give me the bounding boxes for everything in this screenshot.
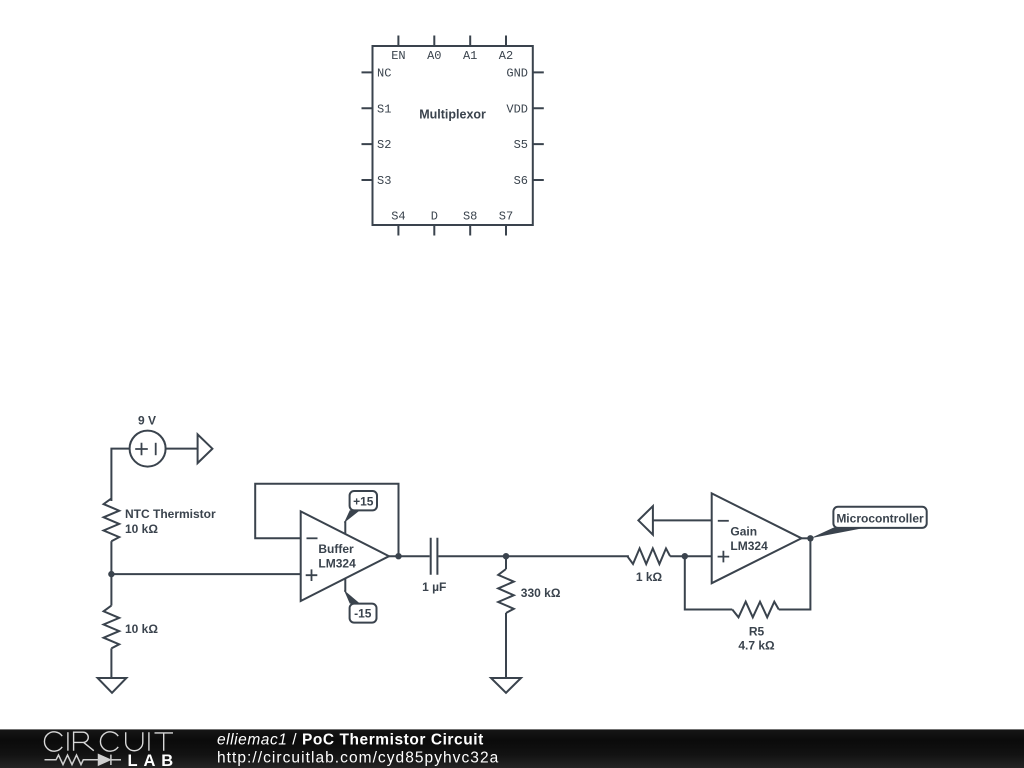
op-amp U3 Gain triangle <box>712 493 802 583</box>
ground symbol middle <box>491 678 521 693</box>
wire buffer output to node B <box>389 555 430 557</box>
footer bar <box>0 729 1024 768</box>
junction node A dot <box>108 571 114 577</box>
voltage source plus sign <box>135 443 148 455</box>
junction node E dot <box>807 535 813 541</box>
multiplexer pin label GND <box>506 66 528 80</box>
svg-text:R5: R5 <box>749 625 765 639</box>
wire node A down to R2 <box>110 574 112 606</box>
svg-text:VDD: VDD <box>506 102 528 116</box>
svg-text:-15: -15 <box>354 606 372 620</box>
footer title <box>217 731 484 748</box>
op-amp U3 minus symbol <box>718 520 729 522</box>
label R4 value <box>636 570 663 584</box>
svg-text:1 µF: 1 µF <box>422 580 446 594</box>
logo CIRCUIT letters <box>44 732 173 751</box>
multiplexer right pins GND VDD S5 S6 <box>533 72 544 180</box>
wire R4 to node D <box>670 555 712 557</box>
svg-text:Multiplexor: Multiplexor <box>419 108 486 122</box>
svg-text:D: D <box>431 210 438 224</box>
multiplexer pin label D <box>431 210 438 224</box>
junction node D dot <box>682 553 688 559</box>
op-amp U1 plus symbol <box>306 569 318 581</box>
multiplexer pin label VDD <box>506 102 528 116</box>
multiplexer pin label S1 <box>377 102 391 116</box>
svg-text:S3: S3 <box>377 174 391 188</box>
ground symbol left <box>98 678 127 693</box>
svg-text:GND: GND <box>506 66 528 80</box>
+15 supply flag box <box>350 491 377 510</box>
wire R3 to ground <box>505 613 507 678</box>
junction node B dot <box>395 553 401 559</box>
wire thermistor to node A <box>110 541 112 574</box>
multiplexer pin label A1 <box>463 49 477 63</box>
multiplexer bottom pins S4 D S8 S7 <box>398 225 506 236</box>
resistor R1 NTC thermistor zigzag <box>104 498 120 541</box>
label R5 value <box>738 638 775 652</box>
-15 supply flag box <box>350 604 377 623</box>
wire capacitor to node C <box>438 555 506 557</box>
voltage source minus bar <box>155 443 157 455</box>
wire source right to flag <box>166 448 198 450</box>
wire node A to buffer input <box>111 573 300 575</box>
multiplexer pin label S6 <box>514 174 528 188</box>
feedback wire buffer output to minus input <box>255 484 398 556</box>
logo LAB text <box>128 752 180 768</box>
multiplexer pin label S8 <box>463 210 477 224</box>
svg-text:10 kΩ: 10 kΩ <box>125 522 158 536</box>
multiplexer pin label A0 <box>427 49 441 63</box>
svg-text:4.7 kΩ: 4.7 kΩ <box>738 638 775 652</box>
label R3 value <box>521 586 561 600</box>
label C1 value <box>422 580 446 594</box>
label Buffer LM324 <box>318 542 356 571</box>
svg-text:S7: S7 <box>499 210 513 224</box>
svg-text:S6: S6 <box>514 174 528 188</box>
label 9V <box>138 413 156 427</box>
multiplexer pin label S4 <box>391 210 405 224</box>
flag tail -15 <box>344 590 360 604</box>
multiplexer left pins NC S1 S2 S3 <box>362 72 373 180</box>
multiplexer pin label S7 <box>499 210 513 224</box>
flag tail +15 <box>344 510 360 523</box>
multiplexer name label <box>419 108 486 122</box>
multiplexer pin label S5 <box>514 138 528 152</box>
resistor R2 10k zigzag <box>104 606 120 649</box>
svg-text:NC: NC <box>377 66 391 80</box>
Microcontroller flag box <box>833 507 926 528</box>
svg-text:A0: A0 <box>427 49 441 63</box>
label NTC Thermistor value <box>125 507 216 536</box>
svg-text:LAB: LAB <box>128 752 180 768</box>
multiplexer pin label A2 <box>499 49 513 63</box>
svg-text:Gain: Gain <box>730 524 757 538</box>
svg-text:A1: A1 <box>463 49 477 63</box>
buffer negative supply pin <box>344 578 346 592</box>
op-amp U1 minus symbol <box>307 537 318 539</box>
label R2 value <box>125 622 158 636</box>
svg-text:Buffer: Buffer <box>318 542 354 556</box>
wire node C down to R3 <box>505 556 507 569</box>
resistor R5 zigzag <box>732 602 779 618</box>
svg-text:A2: A2 <box>499 49 513 63</box>
svg-text:S4: S4 <box>391 210 405 224</box>
svg-text:1 kΩ: 1 kΩ <box>636 570 663 584</box>
wire gain output to node E <box>802 537 811 539</box>
multiplexer pin label S3 <box>377 174 391 188</box>
logo resistor and diode <box>45 755 122 765</box>
svg-text:9 V: 9 V <box>138 413 156 427</box>
svg-text:S8: S8 <box>463 210 477 224</box>
svg-text:10 kΩ: 10 kΩ <box>125 622 158 636</box>
wire source left to thermistor <box>111 449 129 501</box>
svg-text:S2: S2 <box>377 138 391 152</box>
junction node C dot <box>503 553 509 559</box>
label R5 name <box>749 625 765 639</box>
wire R5 to gain output node <box>779 538 811 609</box>
svg-text:Microcontroller: Microcontroller <box>836 512 924 526</box>
capacitor C1 plates <box>431 538 438 575</box>
svg-text:S5: S5 <box>514 138 528 152</box>
wire node C to R4 <box>506 555 629 557</box>
op-amp U3 plus symbol <box>718 551 730 563</box>
net flag at gain minus input <box>638 506 653 535</box>
svg-text:S1: S1 <box>377 102 391 116</box>
wire flag to gain minus input <box>653 519 712 521</box>
multiplexer U2 body <box>373 46 533 225</box>
multiplexer top pins EN A0 A1 A2 <box>398 36 506 47</box>
resistor R4 1k zigzag <box>627 548 670 564</box>
label Gain LM324 <box>730 524 768 552</box>
voltage source V1 9V circle <box>130 431 166 467</box>
buffer positive supply pin <box>344 521 346 534</box>
label +15 <box>353 494 374 508</box>
resistor R3 330k zigzag <box>498 569 514 613</box>
multiplexer pin label S2 <box>377 138 391 152</box>
footer url <box>217 749 499 766</box>
wire R2 to ground <box>110 648 112 678</box>
svg-text:NTC Thermistor: NTC Thermistor <box>125 507 216 521</box>
label Microcontroller <box>836 512 924 526</box>
svg-text:+15: +15 <box>353 494 374 508</box>
multiplexer pin label EN <box>391 49 405 63</box>
wire node D down and to R5 <box>685 556 733 609</box>
svg-text:LM324: LM324 <box>730 539 768 553</box>
svg-text:EN: EN <box>391 49 405 63</box>
svg-text:http://circuitlab.com/cyd85pyh: http://circuitlab.com/cyd85pyhvc32a <box>217 749 499 766</box>
svg-text:LM324: LM324 <box>318 557 356 571</box>
flag tail Microcontroller <box>810 528 866 539</box>
svg-text:330 kΩ: 330 kΩ <box>521 586 561 600</box>
op-amp U1 Buffer triangle <box>301 511 389 601</box>
label -15 <box>354 606 372 620</box>
net flag at source output <box>198 434 213 463</box>
multiplexer pin label NC <box>377 66 391 80</box>
svg-text:elliemac1 / PoC Thermistor Cir: elliemac1 / PoC Thermistor Circuit <box>217 731 484 748</box>
